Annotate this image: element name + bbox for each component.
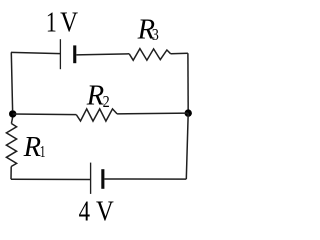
svg-text:R: R	[23, 132, 41, 163]
svg-text:R: R	[86, 81, 104, 112]
resistor R1 zigzag	[6, 124, 16, 167]
wire right rail upper	[187, 53, 189, 113]
svg-text:4: 4	[79, 195, 91, 227]
svg-text:V: V	[60, 6, 78, 38]
resistor R2 zigzag	[76, 109, 117, 121]
wire below R1	[10, 167, 12, 180]
wire bottom-left segment	[11, 178, 91, 180]
node right	[185, 109, 192, 116]
wire top-middle segment	[76, 54, 129, 55]
wire bottom-right segment	[104, 178, 186, 180]
resistor R3 zigzag	[129, 49, 171, 61]
wire middle-left segment	[13, 113, 77, 116]
wire middle-right segment	[117, 112, 188, 115]
battery V2 thin plate (4 V source, long plate)	[90, 163, 92, 194]
node left	[9, 110, 16, 117]
svg-text:V: V	[96, 195, 114, 227]
svg-text:1: 1	[46, 6, 57, 38]
wire right rail lower	[186, 113, 188, 179]
wire top-left segment	[11, 52, 60, 53]
wire top-right segment	[171, 52, 188, 55]
battery V1 thick plate (1 V source, short plate)	[73, 45, 76, 63]
battery V1 thin plate (1 V source, long plate)	[59, 39, 61, 69]
svg-text:3: 3	[152, 25, 159, 44]
battery V2 thick plate (4 V source, short plate)	[101, 169, 104, 189]
svg-text:2: 2	[103, 92, 110, 111]
wire left rail	[11, 52, 12, 110]
wire node-left to R1	[11, 118, 12, 124]
svg-text:1: 1	[40, 142, 46, 161]
